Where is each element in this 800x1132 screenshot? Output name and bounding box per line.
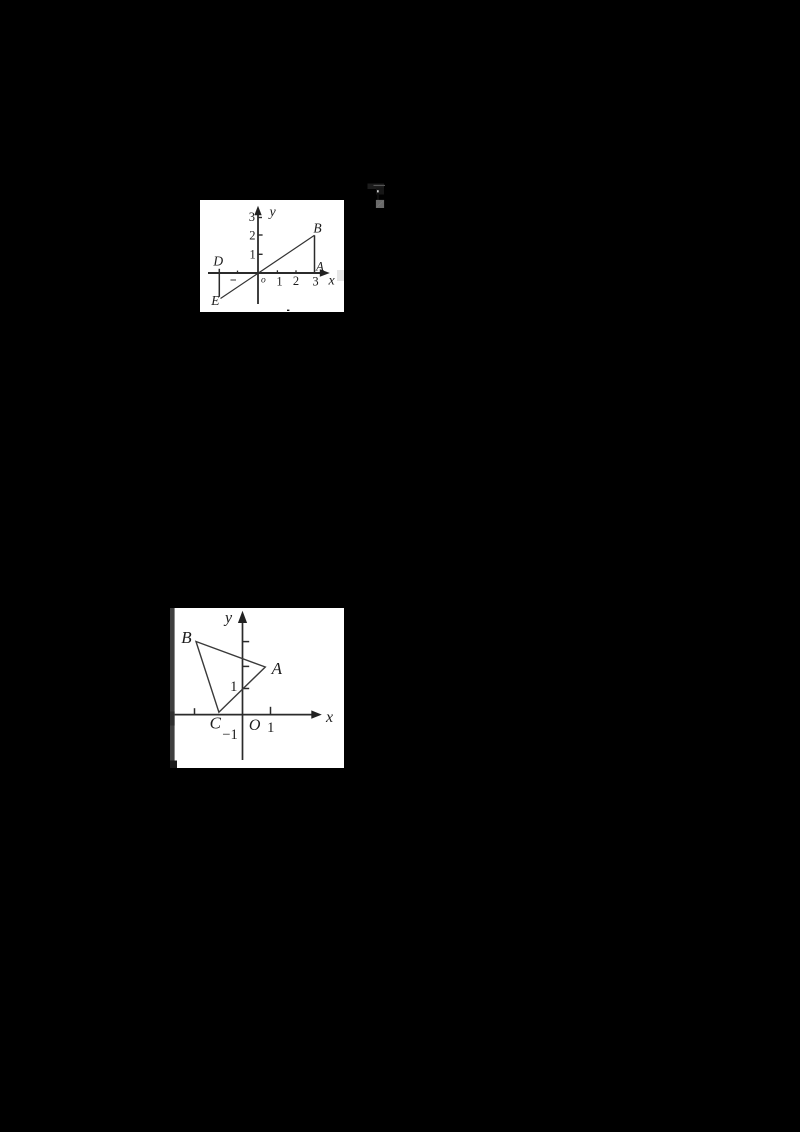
svg-text:3: 3: [312, 274, 318, 288]
x-axis arrowhead: [311, 710, 322, 718]
icon white dot: [377, 190, 379, 192]
x-axis: [175, 714, 313, 716]
svg-text:C: C: [210, 713, 222, 732]
svg-text:y: y: [223, 610, 233, 627]
svg-text:1: 1: [276, 274, 282, 288]
x tick 1: [276, 270, 278, 273]
y-axis: [257, 213, 259, 304]
figure 2: coordinate plane with triangle ABC: [170, 608, 344, 768]
svg-text:O: O: [249, 717, 261, 734]
left scan strip: [170, 608, 175, 768]
icon top dark bar: [368, 184, 385, 190]
left strip dark notch bottom: [170, 761, 177, 769]
left strip darker mid segment: [170, 712, 175, 726]
light gray block right edge: [337, 270, 344, 281]
y tick 1: [258, 253, 263, 255]
line E to B: [221, 235, 315, 298]
dot on bottom edge: [287, 310, 289, 311]
figure 1: coordinate plane with D,E,B,A: [200, 200, 344, 312]
svg-text:2: 2: [249, 228, 255, 242]
x-axis: [208, 272, 323, 274]
y tick 2: [258, 234, 263, 236]
svg-text:2: 2: [293, 274, 299, 288]
y-axis: [242, 620, 244, 760]
segment B to A: [314, 235, 316, 272]
svg-text:1: 1: [250, 248, 256, 262]
svg-text:D: D: [212, 254, 223, 269]
svg-text:x: x: [328, 274, 336, 289]
svg-text:−1: −1: [222, 727, 237, 743]
svg-text:A: A: [271, 659, 283, 678]
icon gray square: [376, 200, 384, 208]
icon mid dark column: [376, 188, 384, 195]
y tick 2: [243, 665, 250, 667]
svg-text:o: o: [261, 276, 266, 286]
triangle ABC: [196, 642, 265, 713]
x tick 1: [270, 707, 272, 715]
y-axis arrowhead: [254, 206, 261, 215]
svg-text:B: B: [313, 220, 321, 235]
svg-text:E: E: [210, 293, 220, 308]
x tick -2: [194, 708, 196, 714]
svg-text:3: 3: [249, 210, 255, 224]
x tick left: [237, 271, 239, 273]
icon vertical dark stem: [377, 193, 379, 203]
icon diagonal streak: [377, 201, 384, 207]
svg-text:1: 1: [230, 679, 237, 695]
y-axis arrowhead: [238, 611, 247, 623]
x tick 2: [295, 270, 297, 273]
y tick 3: [258, 217, 262, 219]
svg-text:x: x: [325, 709, 333, 726]
x-axis arrowhead: [320, 269, 330, 277]
small dark icon glyph: [366, 182, 386, 209]
svg-text:B: B: [181, 628, 192, 647]
svg-text:1: 1: [267, 720, 274, 736]
y tick 3: [243, 641, 250, 643]
segment D to E: [218, 269, 220, 297]
dash mark below axis: [231, 279, 237, 281]
svg-text:y: y: [268, 205, 277, 220]
svg-text:A: A: [315, 259, 324, 273]
y tick 1: [243, 688, 250, 690]
icon light horizontal line: [374, 185, 386, 186]
